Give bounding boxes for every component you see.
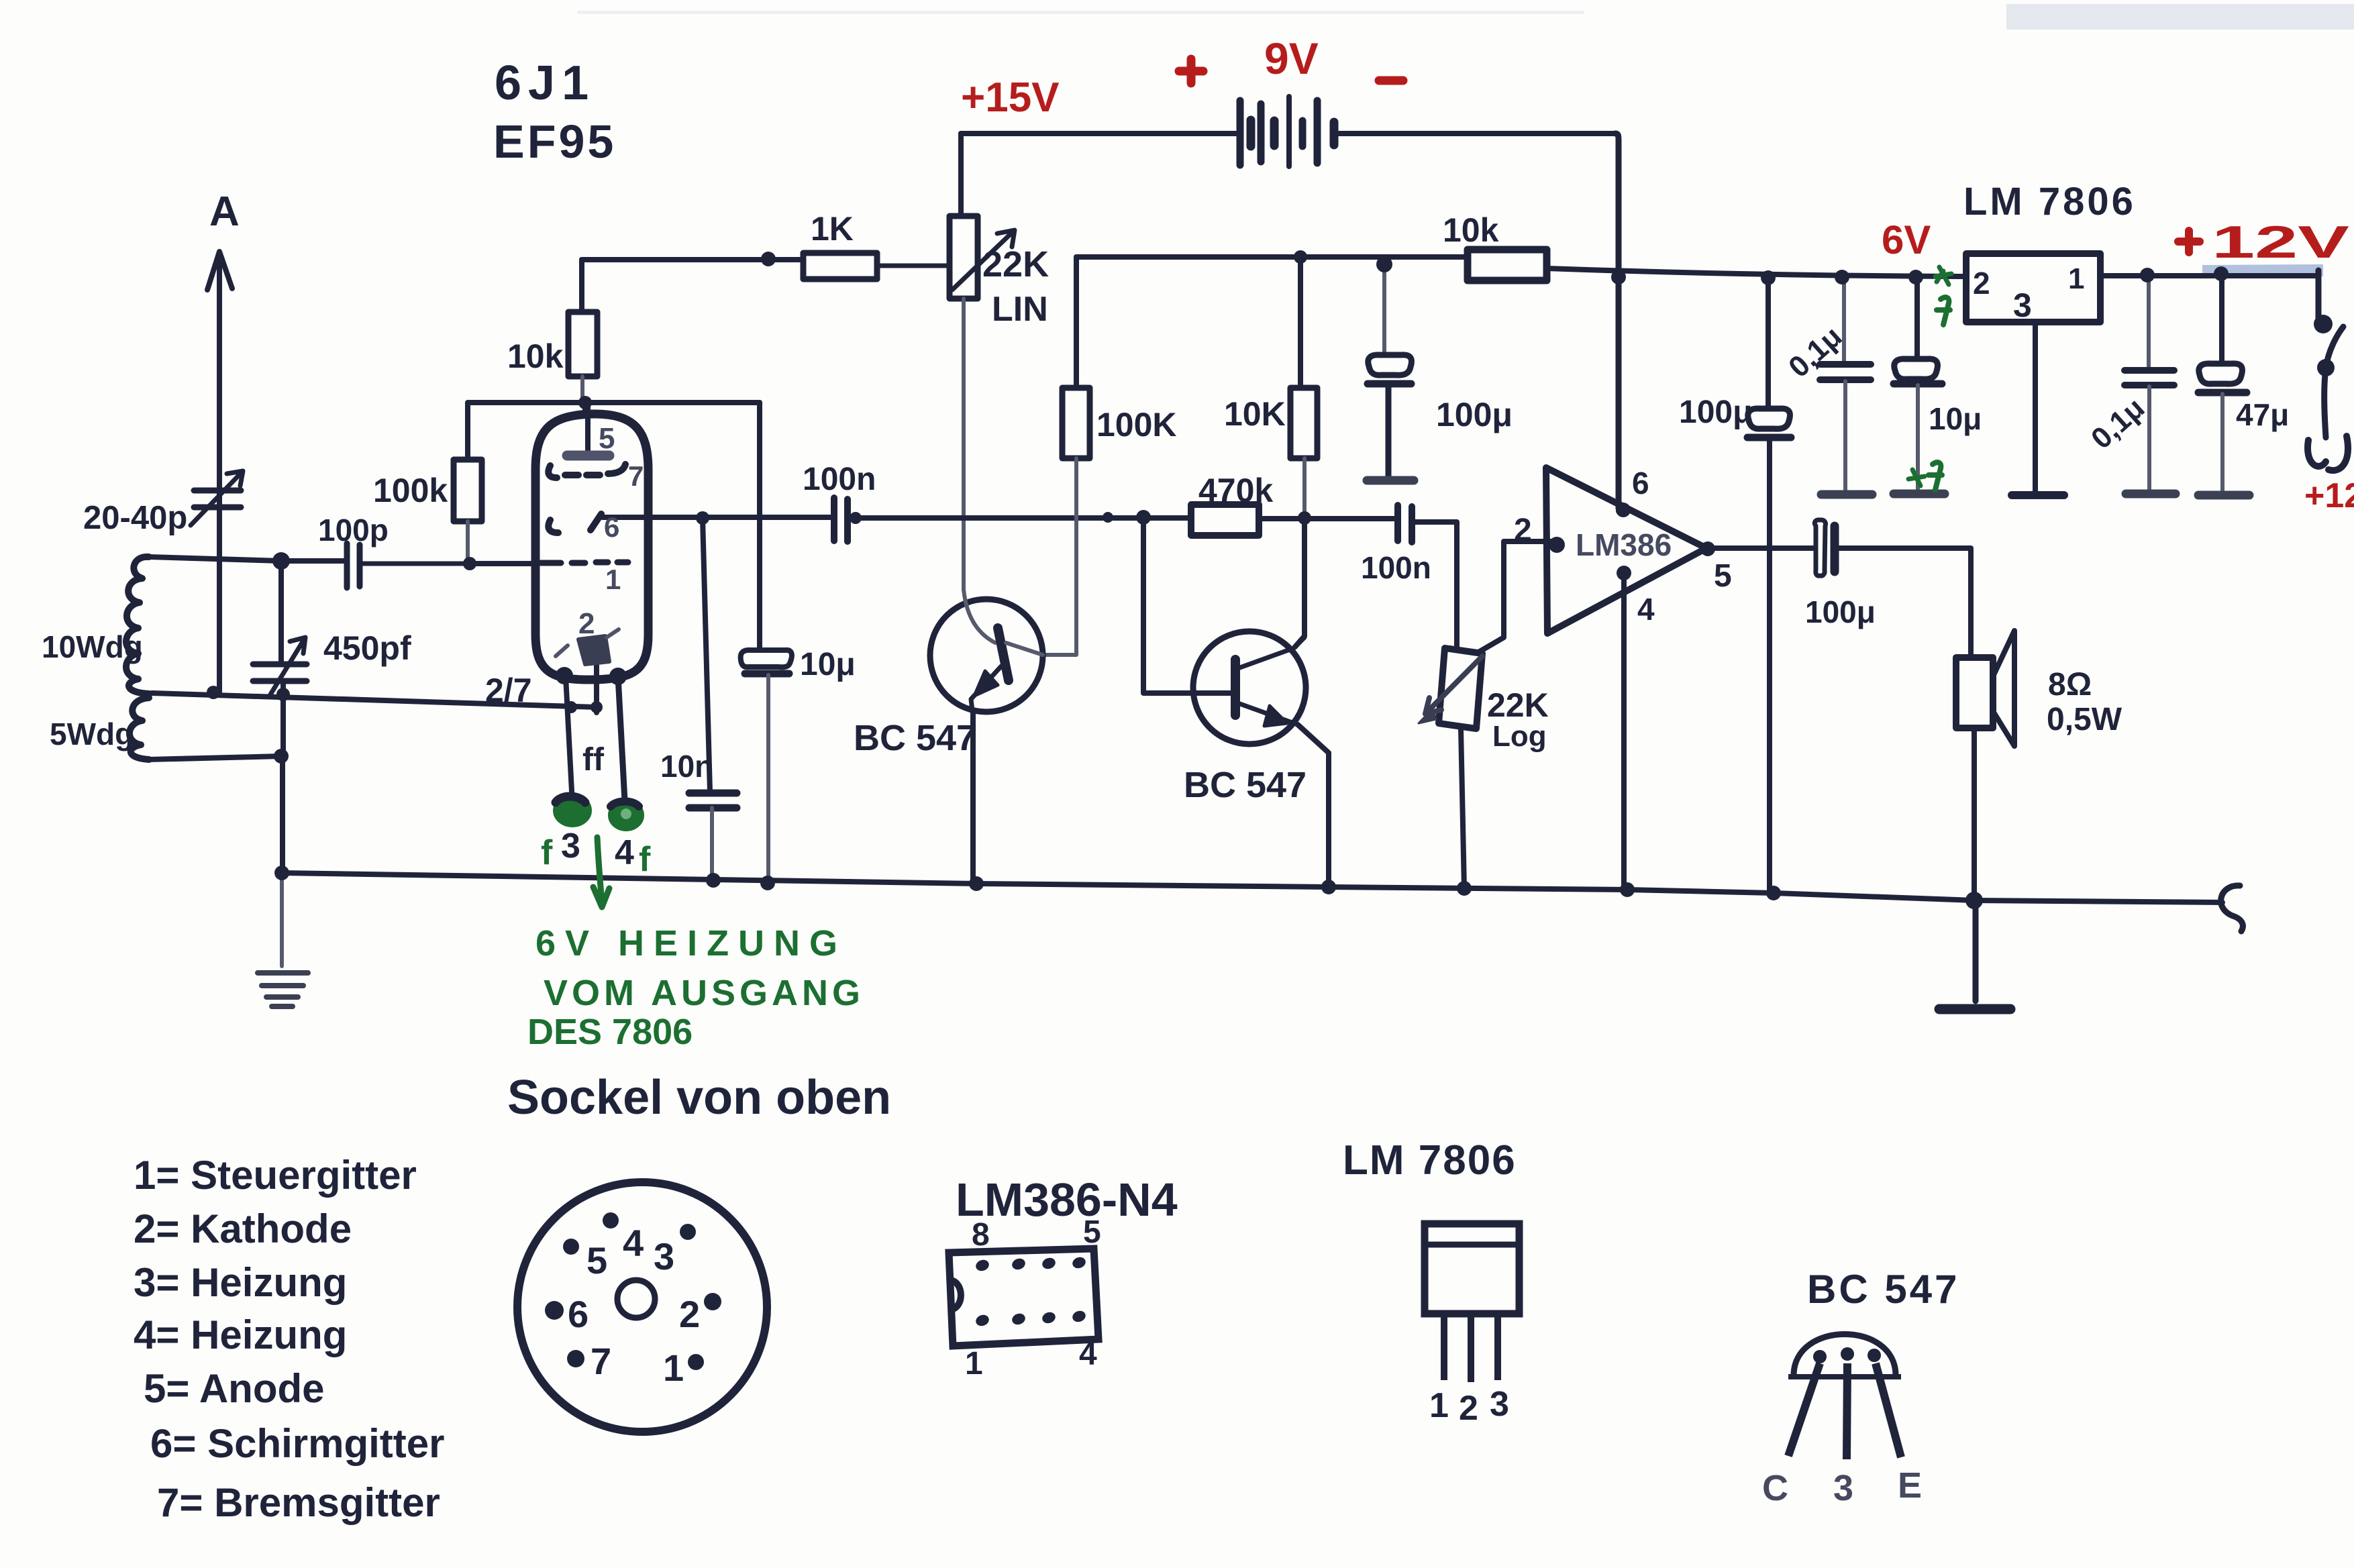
svg-text:100p: 100p <box>318 513 389 547</box>
svg-text:DES 7806: DES 7806 <box>527 1012 693 1052</box>
svg-text:8Ω: 8Ω <box>2048 667 2092 702</box>
svg-text:1: 1 <box>1429 1386 1449 1425</box>
svg-text:C: C <box>1762 1468 1788 1508</box>
svg-text:10n: 10n <box>660 749 713 784</box>
svg-text:1: 1 <box>965 1346 983 1381</box>
svg-text:6: 6 <box>1632 466 1649 501</box>
svg-text:2: 2 <box>1459 1389 1478 1428</box>
svg-text:3: 3 <box>561 827 580 866</box>
svg-text:f: f <box>541 833 553 872</box>
svg-text:5: 5 <box>1714 558 1732 594</box>
svg-text:1K: 1K <box>811 210 854 248</box>
svg-text:LM 7806: LM 7806 <box>1963 180 2136 223</box>
svg-text:Log: Log <box>1492 720 1547 753</box>
svg-text:10μ: 10μ <box>800 647 856 682</box>
svg-text:3: 3 <box>654 1235 674 1277</box>
svg-text:6V: 6V <box>1882 217 1931 262</box>
svg-text:1: 1 <box>663 1347 684 1389</box>
svg-text:5= Anode: 5= Anode <box>144 1366 325 1411</box>
svg-text:A: A <box>209 189 240 235</box>
svg-text:1= Steuergitter: 1= Steuergitter <box>134 1153 417 1198</box>
svg-text:LM 7806: LM 7806 <box>1343 1137 1517 1184</box>
svg-text:9V: 9V <box>1264 34 1319 83</box>
svg-text:3: 3 <box>1490 1385 1509 1424</box>
svg-text:100μ: 100μ <box>1679 395 1752 430</box>
svg-text:4: 4 <box>1637 592 1655 627</box>
svg-text:22K: 22K <box>982 244 1049 284</box>
svg-text:10Wdg: 10Wdg <box>42 629 143 664</box>
svg-text:100μ: 100μ <box>1436 396 1513 433</box>
svg-text:f: f <box>639 840 651 879</box>
svg-text:6: 6 <box>604 511 619 543</box>
svg-text:100n: 100n <box>1361 550 1431 585</box>
svg-text:7: 7 <box>628 460 644 492</box>
svg-text:6V HEIZUNG: 6V HEIZUNG <box>535 923 847 963</box>
svg-text:BC 547: BC 547 <box>854 718 976 758</box>
svg-text:450pf: 450pf <box>323 629 411 667</box>
svg-text:4: 4 <box>615 833 634 872</box>
svg-text:2: 2 <box>1514 513 1532 548</box>
svg-text:2: 2 <box>679 1293 700 1335</box>
svg-text:10K: 10K <box>1224 395 1286 433</box>
svg-text:LIN: LIN <box>992 290 1048 329</box>
svg-text:5: 5 <box>1083 1214 1101 1250</box>
svg-text:VOM AUSGANG: VOM AUSGANG <box>544 973 864 1013</box>
svg-text:ff: ff <box>582 742 605 778</box>
svg-text:100k: 100k <box>373 472 448 509</box>
svg-text:BC 547: BC 547 <box>1184 765 1307 805</box>
svg-text:2: 2 <box>1973 266 1990 301</box>
svg-text:4: 4 <box>1079 1337 1097 1372</box>
svg-text:7= Bremsgitter: 7= Bremsgitter <box>157 1480 440 1525</box>
svg-text:22K: 22K <box>1487 686 1549 724</box>
svg-text:5: 5 <box>599 422 615 455</box>
svg-text:10k: 10k <box>507 337 564 375</box>
svg-text:5Wdg: 5Wdg <box>50 717 134 751</box>
svg-text:0,5W: 0,5W <box>2047 702 2122 737</box>
svg-text:3= Heizung: 3= Heizung <box>134 1260 347 1305</box>
svg-text:3: 3 <box>2013 286 2032 324</box>
svg-text:3: 3 <box>1833 1468 1853 1508</box>
svg-text:10k: 10k <box>1443 211 1499 249</box>
svg-text:20-40p: 20-40p <box>83 500 187 536</box>
svg-text:BC 547: BC 547 <box>1807 1267 1959 1312</box>
svg-text:47μ: 47μ <box>2236 397 2289 432</box>
svg-text:100n: 100n <box>803 462 876 497</box>
svg-text:2: 2 <box>578 607 595 640</box>
svg-text:100μ: 100μ <box>1805 594 1876 629</box>
svg-text:1: 1 <box>605 564 621 595</box>
svg-text:+15V: +15V <box>961 74 1060 121</box>
svg-text:6: 6 <box>568 1293 588 1335</box>
svg-text:4= Heizung: 4= Heizung <box>134 1312 347 1357</box>
svg-text:Sockel von oben: Sockel von oben <box>507 1071 891 1125</box>
svg-text:+12: +12 <box>2304 476 2354 515</box>
svg-text:7: 7 <box>591 1340 611 1382</box>
svg-text:12V: 12V <box>2212 217 2349 268</box>
svg-text:6= Schirmgitter: 6= Schirmgitter <box>150 1421 445 1466</box>
svg-text:100K: 100K <box>1096 406 1177 443</box>
svg-text:6J1: 6J1 <box>495 56 595 110</box>
svg-text:E: E <box>1898 1465 1922 1506</box>
svg-text:470k: 470k <box>1198 472 1273 509</box>
svg-text:EF95: EF95 <box>493 115 616 168</box>
svg-text:8: 8 <box>972 1217 990 1253</box>
svg-text:2/7: 2/7 <box>485 672 532 709</box>
svg-text:4: 4 <box>623 1222 644 1264</box>
svg-text:5: 5 <box>586 1239 607 1282</box>
svg-text:10μ: 10μ <box>1929 401 1982 436</box>
svg-text:LM386: LM386 <box>1576 527 1672 562</box>
svg-text:1: 1 <box>2068 262 2084 295</box>
svg-text:2= Kathode: 2= Kathode <box>134 1206 352 1251</box>
